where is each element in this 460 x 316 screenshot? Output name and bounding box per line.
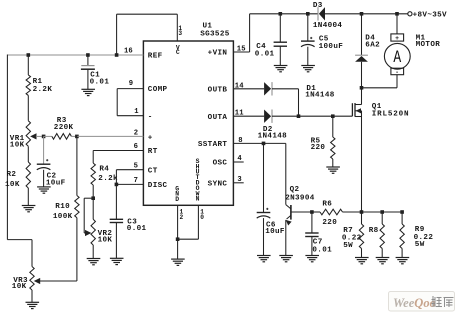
svg-text:+VIN: +VIN bbox=[208, 50, 228, 58]
svg-text:10K: 10K bbox=[10, 141, 25, 149]
svg-text:220K: 220K bbox=[54, 124, 74, 132]
svg-text:R4: R4 bbox=[99, 166, 109, 174]
svg-text:R8: R8 bbox=[369, 227, 379, 235]
svg-text:RT: RT bbox=[148, 148, 158, 156]
svg-text:D: D bbox=[175, 196, 179, 203]
svg-text:10K: 10K bbox=[98, 237, 113, 245]
svg-text:2: 2 bbox=[179, 214, 183, 221]
svg-text:OSC: OSC bbox=[213, 160, 228, 168]
svg-text:+: + bbox=[148, 134, 153, 142]
svg-text:8: 8 bbox=[238, 137, 242, 145]
svg-text:5W: 5W bbox=[343, 242, 353, 250]
svg-text:R6: R6 bbox=[322, 201, 332, 209]
svg-text:IRL520N: IRL520N bbox=[372, 111, 410, 119]
svg-text:15: 15 bbox=[237, 46, 246, 54]
svg-text:COMP: COMP bbox=[148, 86, 168, 94]
svg-text:10uF: 10uF bbox=[265, 228, 285, 236]
svg-text:11: 11 bbox=[235, 110, 244, 118]
svg-text:10uF: 10uF bbox=[46, 179, 66, 187]
svg-text:+8V~35V: +8V~35V bbox=[413, 11, 447, 19]
svg-text:D3: D3 bbox=[313, 2, 323, 10]
svg-text:0.01: 0.01 bbox=[255, 51, 275, 59]
svg-text:A: A bbox=[393, 48, 401, 68]
svg-text:0: 0 bbox=[200, 214, 204, 221]
svg-text:10K: 10K bbox=[5, 181, 20, 189]
svg-text:OUTA: OUTA bbox=[208, 114, 228, 122]
svg-text:2.2k: 2.2k bbox=[98, 175, 118, 183]
svg-text:Q2: Q2 bbox=[290, 186, 300, 194]
svg-text:WeeQoo: WeeQoo bbox=[393, 296, 436, 310]
svg-text:1: 1 bbox=[134, 108, 139, 116]
svg-text:5W: 5W bbox=[415, 241, 425, 249]
svg-text:MOTOR: MOTOR bbox=[416, 41, 441, 49]
svg-text:7: 7 bbox=[134, 177, 138, 185]
svg-text:2.2K: 2.2K bbox=[33, 86, 53, 94]
svg-text:5: 5 bbox=[134, 162, 138, 170]
svg-text:SYNC: SYNC bbox=[208, 181, 228, 189]
svg-text:C7: C7 bbox=[313, 239, 323, 247]
svg-text:14: 14 bbox=[235, 82, 244, 90]
svg-text:DISC: DISC bbox=[148, 182, 168, 190]
svg-text:N: N bbox=[196, 196, 200, 203]
svg-text:10K: 10K bbox=[12, 283, 27, 291]
svg-text:R2: R2 bbox=[7, 171, 17, 179]
svg-text:220: 220 bbox=[322, 219, 337, 227]
svg-text:6A2: 6A2 bbox=[365, 41, 380, 49]
svg-text:SSTART: SSTART bbox=[198, 141, 228, 149]
svg-text:C5: C5 bbox=[319, 35, 329, 43]
svg-text:6: 6 bbox=[134, 143, 138, 151]
svg-text:+: + bbox=[395, 35, 399, 42]
svg-text:2N3904: 2N3904 bbox=[285, 194, 315, 202]
svg-text:OUTB: OUTB bbox=[208, 87, 228, 95]
svg-text:2: 2 bbox=[134, 129, 138, 137]
svg-text:100K: 100K bbox=[53, 213, 73, 221]
svg-text:0.01: 0.01 bbox=[90, 78, 110, 86]
svg-text:4: 4 bbox=[237, 155, 242, 163]
svg-text:3: 3 bbox=[237, 176, 241, 184]
svg-text:1N4148: 1N4148 bbox=[258, 132, 288, 140]
svg-text:1N4004: 1N4004 bbox=[313, 22, 343, 30]
svg-text:0.01: 0.01 bbox=[127, 225, 147, 233]
svg-text:SG3525: SG3525 bbox=[200, 31, 230, 39]
svg-text:9: 9 bbox=[129, 80, 133, 88]
svg-text:220: 220 bbox=[311, 144, 326, 152]
svg-text:C: C bbox=[176, 49, 180, 56]
svg-text:1N4148: 1N4148 bbox=[305, 92, 335, 100]
svg-text:3: 3 bbox=[178, 30, 182, 37]
svg-text:-: - bbox=[148, 113, 153, 121]
svg-text:CT: CT bbox=[148, 167, 158, 175]
svg-text:U1: U1 bbox=[203, 22, 213, 30]
svg-text:100uF: 100uF bbox=[319, 43, 344, 51]
svg-text:REF: REF bbox=[148, 53, 163, 61]
svg-text:16: 16 bbox=[124, 48, 133, 56]
svg-text:0.01: 0.01 bbox=[312, 246, 332, 254]
svg-text:R10: R10 bbox=[55, 203, 70, 211]
